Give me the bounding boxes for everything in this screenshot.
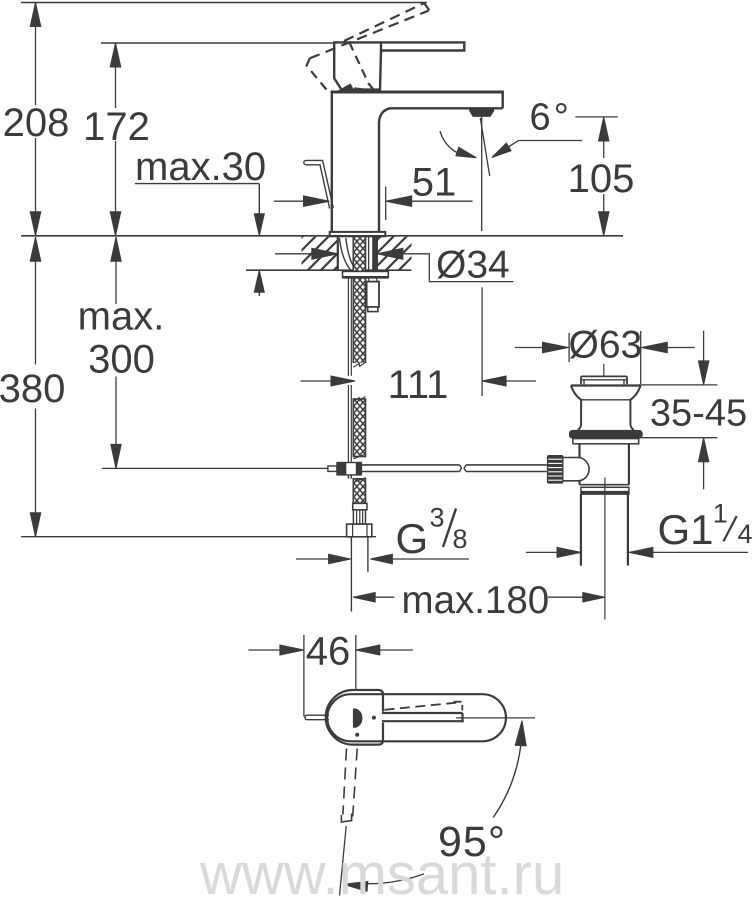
tailpipe centerline (604, 478, 606, 620)
raised handle body dashed outline (307, 58, 328, 90)
faucet deck/spout top edge (331, 91, 503, 94)
svg-text:max.30: max.30 (135, 145, 266, 189)
dimension 172 vertical line with arrows (115, 43, 117, 108)
mounting hole right edge (376, 237, 378, 271)
plan view: base escutcheon with rounded front (326, 690, 383, 745)
mounting hole left edge (337, 237, 339, 271)
dimension max.300 vertical line with arrows (115, 237, 117, 304)
top reference line (208 dim, raised lever tip) (21, 2, 427, 4)
35-45 reference lines (639, 384, 718, 386)
dark wedge shadows at handle base (337, 83, 355, 91)
svg-text:max.180: max.180 (402, 579, 550, 622)
svg-text:www.msant.ru: www.msant.ru (199, 842, 564, 900)
housing groove band (580, 484, 629, 486)
46 dimension outside arrows (248, 649, 282, 651)
pull rod below counter (347, 278, 349, 376)
35-45 vertical with outside arrows (703, 331, 705, 362)
6 degree leader line with arrowhead (519, 140, 583, 142)
6 degree tilted stream line (480, 118, 489, 176)
svg-text:4: 4 (738, 519, 752, 549)
svg-text:111: 111 (388, 363, 449, 407)
svg-text:172: 172 (83, 105, 150, 149)
aerator (dark outlet block) (469, 108, 494, 117)
mounting nut on stud (367, 282, 379, 307)
mounting stud in hole (372, 237, 377, 271)
counter cross-section hatching (0, 236, 655, 271)
plan view: lever handle capsule (327, 694, 506, 741)
drain tailpipe (580, 494, 582, 565)
Ø34 dimension arrows at mounting hole (275, 253, 313, 255)
faucet body column left edge (331, 92, 333, 232)
svg-text:51: 51 (412, 160, 457, 204)
hose end collar (353, 503, 367, 509)
stream extension line segments down to 111 dimension (481, 287, 483, 396)
raised lever dashed lower edge (310, 11, 429, 59)
51 extension line (385, 187, 387, 221)
pull rod clamp block and nipple (328, 466, 337, 471)
svg-text:max.: max. (78, 295, 165, 339)
svg-text:105: 105 (568, 157, 635, 201)
dimension 208 vertical line with arrows (35, 3, 37, 106)
spout right edge (502, 91, 504, 109)
svg-text:3: 3 (430, 503, 445, 533)
adjuster stem with arc bulge (564, 458, 590, 481)
flange neck inner line (581, 399, 630, 401)
raised lever tip cap (424, 3, 429, 10)
95 degree swing arc with arrowheads (493, 724, 522, 818)
plan view: centerline to right (456, 717, 535, 719)
under-counter washer plate (343, 271, 389, 277)
max.180 dimension line with inward-out arrows (353, 593, 375, 603)
svg-text:300: 300 (88, 338, 155, 382)
svg-text:6°: 6° (530, 97, 572, 139)
ribbed hose nut section (353, 510, 365, 524)
svg-text:G: G (396, 515, 429, 562)
dimension 105 vertical line with arrows (603, 117, 605, 158)
svg-text:46: 46 (306, 630, 351, 674)
max.30 underline and leader with opposed arrows through countertop (135, 183, 259, 185)
base plate escutcheon (330, 232, 386, 236)
raised lever (dashed position) upper edge (344, 3, 424, 41)
dimension 111 outside arrows (301, 380, 335, 382)
raised body right edge dashed (349, 42, 374, 90)
lever bar (rest position) (381, 42, 464, 50)
knurled adjuster knob (547, 455, 564, 484)
105 top reference line (575, 116, 617, 118)
braided flex hose upper segment (353, 237, 365, 368)
drain flange top (571, 384, 641, 386)
braided flex hose middle segment (353, 399, 365, 457)
dashed lever rotated 95 deg (downward) (343, 749, 347, 815)
pop-up button cap (581, 376, 627, 384)
svg-text:Ø63: Ø63 (569, 324, 643, 367)
lever axis extension line (340, 826, 347, 896)
drain valve housing (578, 444, 580, 485)
plan view: pull rod tip protruding (305, 715, 329, 720)
handle body (cartridge cover) (334, 42, 381, 89)
46 dimension extension lines (303, 635, 305, 717)
dashed lever tip cap (341, 814, 351, 823)
countertop surface line (21, 235, 623, 237)
vertical stream reference line (481, 117, 483, 231)
stud between washer and nut (368, 277, 370, 281)
pop-up pull rod with hooked top (behind handle) (306, 160, 333, 207)
plan view: cartridge D-shaped mark (353, 709, 363, 728)
hose tail broken pipe lines (350, 537, 352, 612)
G3/8 hex nut (347, 524, 372, 537)
drain flange trumpet sides (571, 386, 581, 430)
svg-text:380: 380 (0, 367, 65, 411)
pull rod curving through hole (339, 238, 350, 270)
hose break upper cut (353, 362, 365, 367)
drain center tick above knob (603, 364, 605, 376)
dimension 51 outside arrows (274, 200, 303, 202)
svg-text:G1: G1 (658, 506, 714, 553)
counter underside line (246, 269, 412, 271)
spout underside with inner corner radius (379, 108, 503, 232)
svg-text:Ø34: Ø34 (436, 244, 510, 287)
380 bottom reference line (hose end) (21, 536, 376, 538)
plan view: lever dashed rotated outline (385, 703, 458, 710)
G3/8 dimension outside arrows (296, 558, 330, 560)
max.300 bottom reference line (pull rod) (102, 467, 328, 469)
Ø34 leader to label (377, 254, 513, 282)
horizontal drain linkage rod (361, 464, 459, 466)
Ø63 dimension outside arrows and extension lines (515, 347, 546, 349)
reference line 172 (lever top) (101, 42, 334, 44)
rubber gasket (dark band) (569, 430, 643, 439)
washer below gasket (573, 439, 639, 444)
plan view: lever neck solid lines (382, 712, 463, 714)
svg-text:1: 1 (713, 499, 728, 529)
dimension 380 vertical line with arrows (35, 237, 37, 365)
braided flex hose lower segment (353, 479, 365, 504)
svg-text:8: 8 (453, 524, 468, 554)
6 degree indicator arc with arrowhead (440, 131, 466, 156)
G1 1/4 dimension outside arrows (526, 551, 560, 553)
svg-text:35-45: 35-45 (650, 392, 747, 434)
plan view: pivot dots (372, 716, 376, 720)
svg-text:208: 208 (3, 101, 70, 145)
